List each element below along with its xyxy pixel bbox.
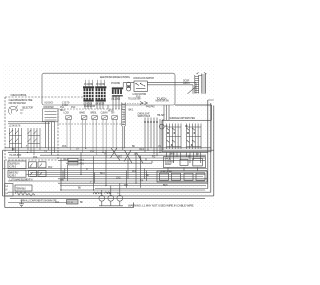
svg-text:M: M — [100, 193, 102, 195]
left edge supply wires — [3, 150, 5, 207]
oven light bulb circle — [159, 124, 164, 129]
latch lever diagonal — [188, 87, 197, 94]
oven lamp box — [67, 200, 79, 204]
latch contact box 3 — [29, 171, 37, 177]
bus wire y174 — [27, 174, 206, 176]
bus wire y172 — [30, 172, 205, 174]
indicator lamp enclosure (dashed) — [58, 109, 124, 124]
connector strip P4 — [122, 103, 125, 127]
wire zigzag — [15, 192, 35, 196]
svg-text:SWITCH P2-8: SWITCH P2-8 — [138, 116, 151, 118]
bus wire y150 — [5, 149, 214, 151]
svg-text:3400W: 3400W — [165, 164, 172, 166]
connector P3 pin block — [112, 87, 123, 96]
junction dots lower — [12, 148, 161, 191]
bus wire y176 — [30, 176, 203, 178]
lock motor circle 1 — [127, 82, 131, 86]
console internal bus lines — [8, 122, 55, 124]
indicator lamp symbols row — [66, 116, 118, 120]
bus wire y158 — [8, 157, 205, 159]
bus wire y190 — [60, 189, 205, 191]
bottom right box row 1 — [164, 157, 206, 168]
svg-text:P4-1 P4-2: P4-1 P4-2 — [146, 107, 155, 109]
surface switch drop wires — [167, 152, 201, 163]
svg-text:L1 TO BAKE ELEMENT N: L1 TO BAKE ELEMENT N — [10, 179, 33, 182]
door lock switch box — [134, 81, 147, 92]
supply wire y202 — [8, 202, 67, 204]
bus wire y179 — [58, 178, 207, 180]
svg-text:1 3 5 7 9: 1 3 5 7 9 — [62, 102, 70, 104]
svg-text:TO LATCH: TO LATCH — [157, 97, 167, 100]
svg-text:TO LOCK SW: TO LOCK SW — [128, 98, 141, 100]
vertical link wires lower zone — [61, 150, 141, 190]
svg-text:SELECTOR: SELECTOR — [22, 107, 33, 109]
scan speckle texture — [2, 63, 215, 209]
terminal block box — [5, 184, 13, 196]
latch contact box 2 — [38, 162, 46, 168]
svg-text:TERM BLK: TERM BLK — [16, 188, 27, 190]
svg-text:K1 P1-5: K1 P1-5 — [9, 166, 17, 168]
svg-text:DOOR SW: DOOR SW — [44, 107, 55, 109]
bus wire y168 — [5, 168, 207, 170]
connector P1 pin block — [83, 86, 94, 101]
P4 drop wires — [123, 126, 125, 150]
right edge top stubs — [193, 83, 214, 100]
dashed link wire — [122, 103, 146, 105]
door latch assembly hatched bar 2 — [202, 74, 206, 94]
svg-text:ELEMENT: ELEMENT — [165, 161, 175, 163]
svg-text:WARNING: L1 MAY NOT USED WIRE: WARNING: L1 MAY NOT USED WIRE IN CABLE W… — [128, 203, 194, 207]
svg-text:BAKE: BAKE — [80, 112, 86, 115]
svg-text:OVEN CONTROL: OVEN CONTROL — [11, 95, 28, 97]
surface switch enclosure — [162, 120, 211, 152]
supply wire y196 — [6, 195, 214, 197]
bus wire y183 — [58, 182, 208, 184]
connector P2 pin block — [95, 86, 106, 101]
svg-text:P1-4 P1-6 BK: P1-4 P1-6 BK — [10, 155, 22, 157]
door switch drop wires — [46, 122, 55, 155]
supply wire y188 — [95, 188, 208, 190]
svg-text:1 2 3 4 5 6 7 8: 1 2 3 4 5 6 7 8 — [9, 126, 22, 128]
motor lead squiggle 2 — [105, 192, 111, 194]
svg-text:LATCH: LATCH — [183, 82, 190, 85]
motor feed wires — [99, 183, 123, 206]
svg-text:M: M — [109, 193, 111, 195]
bus wire y152 — [8, 152, 208, 154]
bus wire y148 — [5, 147, 211, 149]
bottom right box row 2 — [157, 171, 207, 182]
svg-text:K1 K2 K3: K1 K2 K3 — [45, 103, 54, 105]
fuse box — [15, 185, 32, 191]
svg-text:CLEAN BAKE BROIL TIME: CLEAN BAKE BROIL TIME — [9, 99, 33, 102]
bus wire y160 — [58, 160, 205, 162]
svg-text:LOCK: LOCK — [64, 113, 70, 115]
svg-text:ELECTRONIC RANGE CONTROL: ELECTRONIC RANGE CONTROL — [100, 76, 131, 79]
supply wire y192 — [8, 191, 211, 193]
bake sub box 3 — [184, 173, 193, 180]
svg-text:K2 P1-7: K2 P1-7 — [9, 176, 17, 178]
left edge stubs — [3, 150, 6, 196]
svg-text:BROIL: BROIL — [165, 159, 172, 161]
latch contact box 1 — [29, 162, 37, 168]
arrow marks — [140, 102, 148, 105]
svg-text:DOOR LOCK SWITCH: DOOR LOCK SWITCH — [134, 78, 155, 80]
svg-text:LF RF LR RR: LF RF LR RR — [160, 172, 172, 174]
small box pair mid-left — [68, 158, 78, 161]
middle vertical harness wires — [145, 118, 163, 157]
latch top marks — [197, 73, 207, 76]
bus wire y170 — [27, 170, 208, 172]
cooling motor circle — [108, 195, 114, 201]
svg-text:OVEN LIGHT: OVEN LIGHT — [138, 113, 151, 115]
latch contact box 4 — [38, 171, 46, 177]
convection motor circle — [99, 195, 105, 201]
wire lock to latch lower — [147, 84, 193, 86]
light motor circle — [117, 195, 123, 201]
svg-text:GRN ALL COMPONENTS SHOWN OFF: GRN ALL COMPONENTS SHOWN OFF — [21, 200, 58, 203]
svg-text:BROIL: BROIL — [91, 113, 98, 115]
ground symbol — [19, 200, 24, 207]
console enclosure (dashed) — [5, 97, 83, 160]
bus wire y163 — [66, 162, 152, 164]
motor lead squiggle 1 — [93, 192, 99, 194]
wire contact dots — [144, 121, 158, 123]
console switch bank B — [28, 128, 40, 155]
surface switch group B — [187, 124, 202, 150]
svg-text:P2-10: P2-10 — [67, 202, 74, 204]
relay box K2 — [8, 170, 26, 177]
wire end hooks — [135, 153, 152, 164]
lock motor circle 2 — [127, 87, 131, 91]
bank B contact dots — [28, 130, 35, 142]
marks inside contact boxes — [30, 164, 42, 176]
bake sub box 1 — [160, 173, 169, 180]
rotary selector arcs — [9, 106, 24, 115]
svg-text:P1-8 P2-9 W: P1-8 P2-9 W — [84, 106, 96, 108]
ERC right edge drop wires — [164, 105, 169, 120]
relay box K1 — [8, 161, 26, 169]
svg-text:OFF ON SW1 SW2: OFF ON SW1 SW2 — [9, 103, 27, 105]
wire lock feed left — [123, 83, 134, 88]
door latch assembly hatched bar 1 — [195, 75, 199, 94]
pin stub wires above connectors — [86, 80, 105, 87]
svg-text:SURFACE UNIT SWITCHES: SURFACE UNIT SWITCHES — [170, 117, 196, 120]
svg-text:DLB RELAY: DLB RELAY — [9, 162, 20, 165]
mid band tick wires — [63, 169, 146, 188]
sensor connector box — [43, 109, 59, 122]
lock cam box — [127, 86, 131, 88]
feed wire top right — [175, 105, 212, 120]
ERC pin drop wires — [85, 97, 119, 110]
bake sub box 2 — [172, 173, 181, 180]
svg-text:MONITOR SW: MONITOR SW — [156, 100, 170, 102]
bank A contact dots — [9, 130, 16, 142]
bake sub box 4 — [196, 173, 205, 180]
bus wire y185 — [60, 185, 206, 187]
svg-text:ON: ON — [111, 113, 115, 115]
stub wires row1-row2 — [168, 167, 198, 171]
indicator drop wires — [67, 119, 116, 158]
svg-text:CLEAN: CLEAN — [101, 112, 108, 115]
broil sub box 2 — [193, 158, 203, 166]
ERC control enclosure box — [42, 73, 175, 105]
surface switch group A — [167, 124, 182, 150]
bottom boundary wire — [5, 203, 134, 208]
svg-text:BAKE RLY: BAKE RLY — [9, 172, 19, 175]
supply wire y198 — [10, 198, 205, 200]
door switch ladder rungs — [45, 112, 57, 121]
broil sub box 1 — [180, 159, 188, 165]
wire lock to latch upper — [147, 82, 196, 84]
console switch bank A — [10, 128, 22, 158]
bus wire y155 — [40, 154, 206, 156]
bus wire y181 — [8, 180, 205, 182]
right edge supply wires — [208, 100, 214, 196]
lock switch contact dots — [135, 83, 145, 87]
svg-text:P3 CONN: P3 CONN — [111, 83, 120, 85]
crossover wires — [111, 148, 144, 163]
